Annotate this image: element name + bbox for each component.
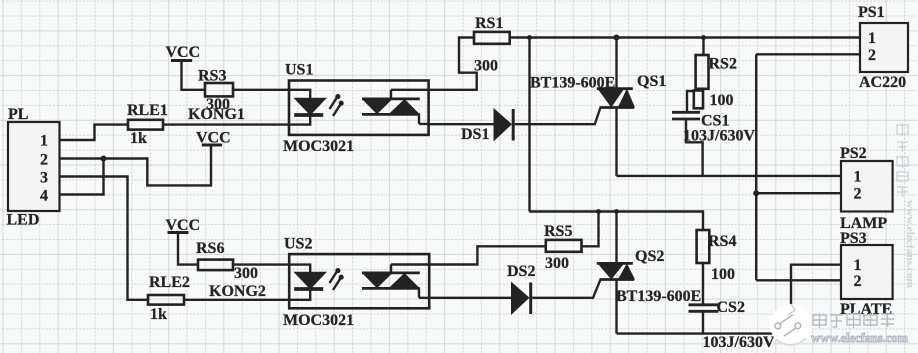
watermark chinese glyphs bottom: [813, 312, 894, 328]
svg-text:RS1: RS1: [475, 15, 503, 32]
phototriac inside US2: [362, 271, 420, 274]
svg-text:2: 2: [854, 186, 862, 203]
wire bottom rail: [617, 332, 792, 334]
transistor Q1 triac QS1: [597, 87, 633, 90]
watermark logo circle: [770, 304, 812, 346]
wire mid feeder line: [530, 212, 704, 231]
wire KONG1 net RLE1 to US1: [163, 123, 289, 125]
svg-text:DS2: DS2: [507, 263, 535, 280]
svg-text:KONG2: KONG2: [209, 283, 266, 300]
svg-text:300: 300: [474, 58, 498, 75]
svg-text:RS4: RS4: [708, 233, 736, 250]
diode DS2: [429, 297, 511, 299]
svg-text:BT139-600E: BT139-600E: [530, 75, 615, 92]
svg-text:DS1: DS1: [461, 126, 489, 143]
svg-text:BT139-600E: BT139-600E: [616, 288, 701, 305]
resistor RS3: [205, 83, 233, 96]
wire rail to RS2: [702, 38, 704, 56]
resistor RS2: [696, 55, 709, 89]
wire PS1 pin2 down neutral: [756, 54, 860, 280]
connector PS3 box: [841, 245, 893, 299]
svg-text:RS2: RS2: [709, 56, 737, 73]
phototriac inside US1: [362, 98, 420, 101]
wire PS3 pin2: [756, 279, 841, 281]
svg-text:US1: US1: [285, 62, 313, 79]
svg-text:AC220: AC220: [859, 74, 906, 91]
node PL pin2 junction: [101, 156, 107, 162]
svg-text:100: 100: [711, 266, 735, 283]
power VCC symbol 1: [171, 59, 192, 62]
resistor RS4: [697, 230, 710, 263]
svg-text:RS3: RS3: [198, 68, 226, 85]
resistor RLE2: [148, 295, 184, 305]
wire RS3 to US1: [233, 89, 289, 91]
svg-text:www.elecfans.com: www.elecfans.com: [904, 200, 916, 288]
svg-text:VCC: VCC: [196, 130, 231, 147]
LED light arrows US2: [330, 271, 338, 283]
svg-text:PL: PL: [8, 106, 28, 123]
wire QS1 output rail to PS2 pin1: [617, 175, 842, 177]
svg-text:100: 100: [710, 92, 734, 109]
svg-text:RLE1: RLE1: [127, 102, 168, 119]
LED light arrows US1: [330, 97, 338, 109]
wire PS3 pin1 to bottom rail: [791, 265, 841, 334]
svg-text:1: 1: [854, 169, 862, 186]
wire KONG2 net RLE2 to US2: [184, 299, 289, 301]
svg-text:2: 2: [868, 47, 876, 64]
svg-text:KONG1: KONG1: [188, 106, 245, 123]
svg-text:QS2: QS2: [635, 248, 664, 265]
op-amp U2 optocoupler US2 box: [289, 254, 429, 308]
op-amp U1 optocoupler US1 box: [289, 81, 429, 135]
svg-text:300: 300: [234, 265, 258, 282]
wire branch down from rail to lower channel: [528, 38, 530, 212]
svg-text:RS5: RS5: [544, 223, 572, 240]
wire RS1 left jog to US1 pin: [429, 38, 477, 90]
svg-text:US2: US2: [284, 236, 312, 253]
svg-text:PS2: PS2: [840, 145, 867, 162]
svg-text:1k: 1k: [130, 130, 147, 147]
svg-text:PS3: PS3: [840, 230, 867, 247]
svg-text:PS1: PS1: [858, 4, 885, 21]
svg-text:103J/630V: 103J/630V: [683, 128, 755, 145]
resistor RS6: [198, 260, 233, 271]
resistor RS5: [546, 240, 582, 252]
connector PS2 box: [841, 161, 893, 212]
wire PL pin3 stub down to RLE2: [60, 177, 149, 300]
svg-text:QS1: QS1: [637, 73, 666, 90]
wire PL pin1 stub: [60, 125, 129, 140]
wire top rail RS1 to PS1: [510, 36, 860, 38]
svg-text:www.elecfans.com: www.elecfans.com: [811, 330, 908, 345]
svg-text:RLE2: RLE2: [149, 274, 190, 291]
capacitor C2 CS2: [689, 303, 719, 306]
svg-text:MOC3021: MOC3021: [283, 138, 354, 155]
svg-text:VCC: VCC: [166, 217, 201, 234]
svg-text:1: 1: [40, 133, 48, 150]
power VCC symbol 2: [202, 144, 222, 147]
wire RS6 to US2: [233, 263, 289, 265]
svg-text:4: 4: [40, 188, 48, 205]
transistor Q2 triac QS2: [597, 262, 633, 265]
svg-text:300: 300: [545, 255, 569, 272]
resistor RS1: [474, 32, 510, 44]
wire PS2 pin2: [756, 192, 841, 194]
svg-text:1: 1: [854, 257, 862, 274]
svg-text:RS6: RS6: [196, 240, 224, 257]
svg-text:MOC3021: MOC3021: [283, 312, 354, 329]
connector PS1 box: [860, 23, 908, 72]
svg-text:CS2: CS2: [717, 299, 745, 316]
resistor RLE1: [128, 120, 163, 130]
capacitor C1 CS1: [672, 111, 700, 114]
diode DS1: [429, 123, 494, 125]
svg-text:1: 1: [868, 30, 876, 47]
watermark right edge vertical: [897, 123, 908, 197]
svg-text:2: 2: [40, 152, 48, 169]
svg-text:103J/630V: 103J/630V: [703, 334, 775, 351]
wire PL pin4 stub: [60, 159, 104, 195]
svg-text:3: 3: [40, 170, 48, 187]
svg-text:1k: 1k: [150, 306, 167, 323]
connector PL box: [8, 122, 60, 211]
LED inside US1: [289, 90, 310, 99]
wire PL pin2 stub to VCC: [60, 146, 212, 185]
svg-text:LED: LED: [7, 212, 40, 229]
power VCC symbol 3: [168, 231, 189, 234]
svg-text:VCC: VCC: [166, 44, 201, 61]
svg-text:2: 2: [854, 273, 862, 290]
LED inside US2: [289, 265, 310, 273]
